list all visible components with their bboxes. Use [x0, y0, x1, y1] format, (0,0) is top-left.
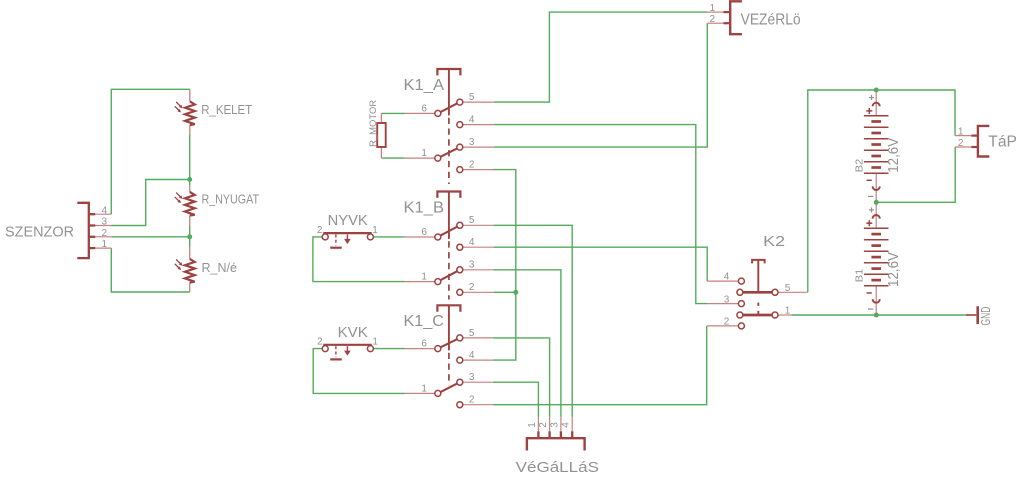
svg-text:K1_B: K1_B: [404, 199, 445, 216]
svg-text:2: 2: [538, 422, 549, 428]
svg-text:R_N/é: R_N/é: [202, 261, 238, 275]
svg-text:1: 1: [102, 239, 108, 250]
svg-text:1: 1: [958, 126, 964, 137]
svg-text:4: 4: [469, 350, 475, 361]
svg-text:1: 1: [372, 225, 378, 236]
svg-text:K2: K2: [763, 234, 785, 250]
svg-text:1: 1: [527, 422, 538, 428]
svg-text:2: 2: [469, 160, 475, 171]
svg-text:K1_C: K1_C: [404, 313, 445, 330]
svg-text:6: 6: [421, 339, 427, 350]
svg-text:R_NYUGAT: R_NYUGAT: [202, 193, 260, 207]
svg-text:4: 4: [469, 115, 475, 126]
svg-text:KVK: KVK: [338, 325, 369, 341]
svg-text:5: 5: [469, 215, 475, 226]
svg-text:R_KELET: R_KELET: [201, 103, 252, 117]
svg-text:B1: B1: [855, 268, 866, 282]
svg-text:3: 3: [549, 422, 560, 428]
svg-text:SZENZOR: SZENZOR: [5, 223, 74, 240]
svg-text:5: 5: [785, 283, 791, 294]
svg-text:2: 2: [102, 228, 108, 239]
svg-text:TáP: TáP: [988, 133, 1017, 150]
svg-text:VEZéRLö: VEZéRLö: [741, 11, 801, 28]
svg-text:1: 1: [421, 383, 427, 394]
svg-text:4: 4: [561, 422, 572, 428]
svg-text:B2: B2: [855, 158, 866, 172]
svg-text:5: 5: [469, 92, 475, 103]
svg-text:1: 1: [372, 337, 378, 348]
svg-text:1: 1: [785, 305, 791, 316]
svg-text:1: 1: [421, 272, 427, 283]
svg-text:3: 3: [102, 217, 108, 228]
svg-text:6: 6: [421, 103, 427, 114]
svg-text:1: 1: [710, 3, 716, 14]
svg-text:3: 3: [724, 294, 730, 305]
svg-text:4: 4: [724, 272, 730, 283]
svg-text:VéGáLLáS: VéGáLLáS: [516, 459, 599, 476]
svg-text:5: 5: [469, 328, 475, 339]
svg-text:12,6V: 12,6V: [886, 138, 902, 173]
svg-text:2: 2: [724, 317, 730, 328]
svg-text:3: 3: [469, 372, 475, 383]
svg-text:2: 2: [317, 337, 323, 348]
svg-text:4: 4: [102, 205, 108, 216]
svg-text:GND: GND: [979, 307, 993, 326]
svg-text:12,6V: 12,6V: [886, 252, 902, 287]
svg-text:3: 3: [469, 137, 475, 148]
svg-text:6: 6: [421, 227, 427, 238]
svg-text:1: 1: [421, 148, 427, 159]
svg-text:R_MOTOR: R_MOTOR: [368, 100, 379, 147]
svg-text:2: 2: [958, 138, 964, 149]
svg-text:2: 2: [469, 282, 475, 293]
svg-text:NYVK: NYVK: [328, 213, 369, 229]
svg-text:4: 4: [469, 237, 475, 248]
svg-text:2: 2: [317, 225, 323, 236]
svg-text:3: 3: [469, 260, 475, 271]
svg-text:2: 2: [469, 395, 475, 406]
svg-text:K1_A: K1_A: [404, 77, 445, 94]
svg-text:2: 2: [710, 14, 716, 25]
